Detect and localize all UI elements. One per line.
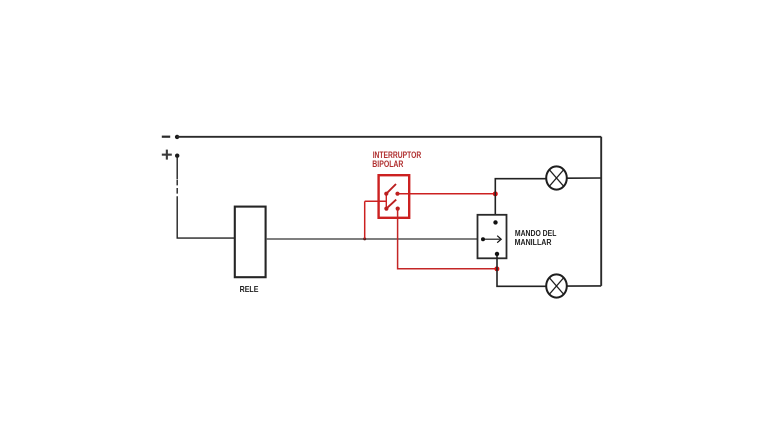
battery positive terminal symbol (+) — [162, 150, 172, 160]
node: positive lead junction dot — [175, 154, 179, 158]
switch pole 1 left contact dot — [384, 192, 388, 196]
lamp L1 (top) — [546, 166, 567, 189]
svg-text:MANDO DEL: MANDO DEL — [515, 229, 557, 238]
pin dot: top contact — [493, 220, 497, 224]
pin dot: bottom contact — [495, 252, 499, 256]
wire: bottom branch vertical (switch box bottom to corner) — [497, 256, 546, 286]
wire: top branch from lamp to right bus — [567, 177, 601, 179]
interruptor bipolar box U1 — [379, 175, 410, 218]
wire: top negative bus — [177, 136, 601, 138]
wire: top branch vertical (corner to switch box top) — [495, 179, 546, 215]
switch pole 2 right contact dot — [396, 207, 400, 211]
switch pole 2 left contact dot — [384, 207, 388, 211]
wire: right return bus — [600, 137, 602, 286]
pin dot: common input — [481, 237, 485, 241]
battery negative terminal symbol (−) — [162, 136, 170, 138]
switch pole 1 lever — [386, 184, 396, 194]
node: red junction at top lamp branch — [493, 191, 498, 196]
wire: dashed section of positive lead — [176, 180, 178, 197]
switch pole 2 lever — [386, 200, 396, 209]
node: negative bus junction dot — [175, 135, 179, 139]
junction: red feed tap on common wire — [363, 237, 366, 240]
relay RELE box — [235, 207, 266, 278]
svg-text:RELE: RELE — [240, 285, 259, 294]
selector arrow — [483, 236, 501, 243]
switch pole 1 right contact dot — [395, 192, 399, 196]
svg-text:MANILLAR: MANILLAR — [515, 238, 552, 247]
wire: positive lead down from + node (solid upper part) — [176, 156, 178, 180]
wire: positive lead down and right into relay — [177, 197, 234, 239]
wire: common wire from relay output to handlebar switch — [266, 238, 478, 240]
svg-text:BIPOLAR: BIPOLAR — [372, 158, 403, 169]
wire: red feed stub into switch link — [365, 200, 387, 202]
node: red junction at bottom lamp branch — [494, 266, 499, 271]
wire: red from pole 2 down and right to bottom lamp node — [398, 209, 497, 269]
wire: red from pole 1 to top lamp node — [398, 193, 496, 195]
wire: bottom branch from lamp to right bus — [567, 285, 601, 287]
wire: red feed drop to common wire — [364, 201, 366, 238]
handlebar switch box (MANDO DEL MANILLAR) — [478, 215, 507, 258]
lamp L2 (bottom) — [546, 274, 567, 297]
mechanical link between switch poles — [385, 194, 387, 209]
